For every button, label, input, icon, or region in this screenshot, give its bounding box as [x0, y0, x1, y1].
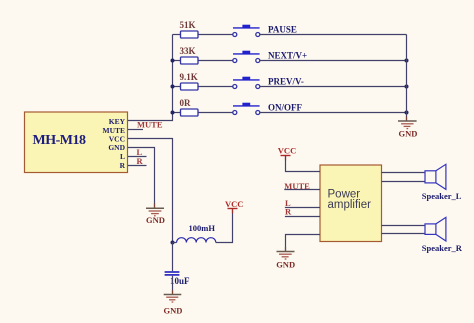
svg-text:KEY: KEY [109, 117, 126, 126]
wire: VCC pin to inductor junction [128, 139, 173, 243]
ground (right of buttons) [398, 117, 417, 139]
wire: amplifier to Speaker_R (top) [382, 225, 426, 227]
wire [260, 34, 407, 36]
junction [171, 111, 175, 115]
speaker Speaker_L [422, 164, 462, 201]
wire: amplifier GND [286, 235, 321, 251]
pushbutton ON/OFF [233, 103, 260, 115]
module MH-M18 [25, 112, 128, 173]
svg-text:9.1K: 9.1K [180, 72, 198, 82]
pushbutton PREV/V- [233, 77, 260, 89]
svg-text:amplifier: amplifier [328, 199, 372, 211]
svg-text:0R: 0R [180, 98, 192, 108]
power amplifier [320, 165, 382, 242]
wire [260, 60, 407, 62]
wire: key bus vertical [128, 35, 173, 121]
svg-text:100mH: 100mH [189, 223, 216, 233]
wire: capacitor to ground [172, 276, 174, 294]
svg-text:GND: GND [108, 143, 125, 152]
wire: GND pin down [128, 148, 155, 208]
svg-text:Speaker_L: Speaker_L [422, 191, 462, 201]
svg-text:R: R [137, 156, 144, 166]
resistor 51K [173, 20, 233, 38]
svg-text:PREV/V-: PREV/V- [268, 77, 304, 87]
svg-text:MH-M18: MH-M18 [33, 133, 86, 148]
resistor 9.1K [173, 72, 233, 90]
junction [171, 85, 175, 89]
junction [171, 59, 175, 63]
svg-text:Speaker_R: Speaker_R [422, 243, 463, 253]
resistor 33K [173, 46, 233, 64]
svg-text:GND: GND [276, 259, 295, 269]
svg-text:GND: GND [146, 215, 165, 225]
wire: MUTE stub (amplifier) [284, 189, 320, 191]
wire [260, 112, 407, 114]
wire: amplifier to Speaker_R (bottom) [382, 233, 426, 235]
svg-text:MUTE: MUTE [284, 181, 310, 191]
ground (module) [146, 204, 165, 226]
wire: L stub (module) [128, 156, 147, 158]
junction [405, 85, 409, 89]
wire: amplifier to Speaker_L (top) [382, 172, 426, 174]
junction (VCC / inductor / capacitor) [171, 241, 175, 245]
wire: amplifier to Speaker_L (bottom) [382, 181, 426, 183]
svg-text:GND: GND [164, 306, 183, 316]
pushbutton PAUSE [233, 25, 260, 37]
wire: right bus [406, 35, 408, 122]
svg-text:VCC: VCC [278, 146, 296, 156]
ground (amplifier) [276, 247, 295, 269]
svg-text:PAUSE: PAUSE [268, 25, 297, 35]
svg-text:L: L [120, 152, 125, 161]
VCC symbol (amplifier) [278, 146, 296, 161]
inductor 100mH [173, 223, 216, 243]
wire: R stub (amplifier) [285, 216, 320, 218]
junction [405, 59, 409, 63]
junction [405, 111, 409, 115]
wire: R stub (module) [128, 165, 147, 167]
svg-text:GND: GND [399, 129, 418, 139]
svg-text:R: R [120, 161, 126, 170]
wire: junction to capacitor [172, 243, 174, 272]
svg-text:51K: 51K [180, 20, 196, 30]
svg-text:33K: 33K [180, 46, 196, 56]
wire: VCC to amplifier [286, 156, 321, 172]
svg-text:R: R [285, 206, 292, 216]
svg-text:NEXT/V+: NEXT/V+ [268, 51, 307, 61]
wire [260, 86, 407, 88]
svg-text:MUTE: MUTE [137, 120, 163, 130]
resistor 0R [173, 98, 233, 116]
ground (capacitor) [164, 290, 183, 316]
pushbutton NEXT/V+ [233, 51, 260, 63]
wire: MUTE stub (module) [128, 129, 143, 131]
svg-text:VCC: VCC [225, 199, 243, 209]
VCC symbol (inductor) [225, 199, 243, 213]
svg-text:ON/OFF: ON/OFF [268, 103, 302, 113]
wire: L stub (amplifier) [285, 207, 320, 209]
capacitor 10uF [165, 272, 190, 286]
speaker Speaker_R [422, 217, 463, 253]
wire: inductor to VCC [216, 209, 233, 243]
